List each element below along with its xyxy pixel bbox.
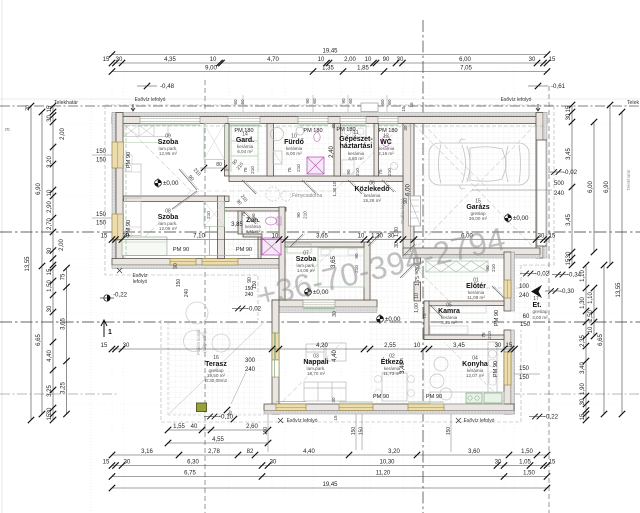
svg-text:15: 15 bbox=[549, 460, 556, 466]
svg-text:90: 90 bbox=[251, 213, 256, 219]
svg-text:-0,22: -0,22 bbox=[544, 414, 559, 421]
svg-text:36,00 m²: 36,00 m² bbox=[469, 216, 488, 221]
svg-text:500: 500 bbox=[554, 181, 565, 187]
svg-text:10: 10 bbox=[365, 57, 372, 63]
svg-text:PM 90: PM 90 bbox=[373, 394, 389, 400]
svg-text:90: 90 bbox=[346, 169, 351, 175]
property line Telekhatar top bbox=[0, 100, 640, 106]
svg-text:82: 82 bbox=[247, 449, 254, 455]
exterior wall left-block south bbox=[112, 259, 285, 269]
room label szoba09 bbox=[158, 134, 179, 157]
garage door east opening bbox=[536, 140, 547, 246]
window gard top bbox=[228, 117, 260, 124]
section line vertical right bbox=[548, 86, 550, 513]
exterior wall konyha east bbox=[504, 330, 515, 414]
wardrobe szoba08 bbox=[204, 202, 225, 227]
svg-text:90: 90 bbox=[485, 265, 490, 271]
svg-text:-0,22: -0,22 bbox=[113, 292, 128, 299]
svg-text:Esővíz lefolyó: Esővíz lefolyó bbox=[287, 418, 318, 424]
svg-text:4,35: 4,35 bbox=[164, 57, 176, 63]
elevation -0,10 terrace bbox=[204, 414, 234, 421]
svg-text:9,00: 9,00 bbox=[205, 66, 217, 72]
svg-text:11,08 m²: 11,08 m² bbox=[467, 295, 485, 300]
dimension right 6,90 bbox=[604, 102, 613, 268]
svg-text:90: 90 bbox=[173, 263, 179, 269]
svg-text:11,73 m²: 11,73 m² bbox=[383, 371, 401, 376]
svg-text:60: 60 bbox=[387, 99, 392, 105]
svg-text:30: 30 bbox=[123, 343, 130, 349]
room label garazs bbox=[466, 199, 489, 222]
svg-text:3,25: 3,25 bbox=[61, 382, 67, 394]
svg-text:240: 240 bbox=[245, 292, 254, 298]
interior wall furdo-gepeszet bbox=[334, 124, 341, 177]
svg-text:3,45: 3,45 bbox=[453, 343, 465, 349]
svg-text:1: 1 bbox=[108, 329, 112, 336]
entrance arrow bbox=[519, 284, 542, 299]
window furdo top bbox=[298, 117, 328, 124]
dimension top chain detail bbox=[103, 57, 556, 66]
dimension right 6,00 bbox=[588, 119, 597, 255]
room label furdo bbox=[284, 134, 304, 157]
terrace circles bbox=[184, 302, 231, 352]
interior wall szoba08 east bbox=[218, 124, 230, 259]
svg-text:1,55: 1,55 bbox=[173, 424, 185, 430]
elevation pm0 szoba07 bbox=[305, 287, 329, 297]
svg-text:4,55: 4,55 bbox=[212, 437, 224, 443]
svg-text:10: 10 bbox=[414, 293, 420, 299]
toilet wc2 bbox=[266, 217, 282, 225]
tile floor etkezo bbox=[370, 301, 414, 404]
svg-text:90: 90 bbox=[296, 212, 301, 218]
svg-text:12,07 m²: 12,07 m² bbox=[466, 373, 485, 378]
kamra door labels 75 210 bbox=[481, 331, 492, 339]
svg-text:75: 75 bbox=[241, 211, 246, 217]
room label wc bbox=[378, 134, 395, 157]
svg-text:Szoba: Szoba bbox=[158, 139, 179, 146]
svg-text:30: 30 bbox=[47, 305, 53, 312]
garage west corner dims 15 30 bbox=[401, 106, 408, 131]
svg-text:Nappali: Nappali bbox=[303, 359, 328, 366]
svg-text:4,40: 4,40 bbox=[332, 350, 338, 362]
elevation -0,22 left bbox=[100, 292, 128, 302]
dimension terrace 1,55 40 2,60 bbox=[165, 424, 271, 433]
svg-text:60: 60 bbox=[523, 314, 530, 320]
toilet wc room bbox=[382, 136, 398, 170]
tile floor garage bbox=[414, 124, 536, 248]
svg-text:15: 15 bbox=[101, 234, 108, 240]
tile floor eloter kamra konyha bbox=[414, 258, 504, 404]
interior wall gepeszet-wc bbox=[374, 124, 379, 177]
svg-text:150: 150 bbox=[359, 427, 365, 436]
elevation -0,48 top left bbox=[137, 83, 175, 90]
exterior wall eloter east bbox=[504, 252, 515, 311]
svg-text:WC: WC bbox=[380, 139, 392, 146]
exterior wall top bbox=[112, 113, 547, 124]
tile floor terrace bbox=[168, 322, 264, 415]
svg-text:4,70: 4,70 bbox=[267, 57, 279, 63]
svg-text:15: 15 bbox=[549, 57, 556, 63]
padlas lejaro attic ladder bbox=[400, 196, 421, 226]
svg-text:90: 90 bbox=[305, 98, 310, 104]
svg-text:6,00 m²: 6,00 m² bbox=[286, 151, 302, 156]
room label szoba07 bbox=[296, 251, 317, 274]
gard shelves bbox=[231, 126, 262, 172]
svg-text:10: 10 bbox=[318, 57, 325, 63]
bathtub furdo bbox=[271, 128, 284, 165]
window nappali south 1 bbox=[276, 404, 306, 411]
top edge 60 labels bbox=[233, 95, 414, 112]
kitchen counter south bbox=[430, 392, 504, 404]
rainwater label top left bbox=[131, 97, 166, 111]
window szoba09 top bbox=[140, 117, 200, 124]
svg-text:Telek: Telek bbox=[627, 100, 640, 106]
dimension top line 19,45 bbox=[109, 49, 550, 58]
svg-text:210: 210 bbox=[250, 166, 255, 174]
svg-text:12,96 m²: 12,96 m² bbox=[159, 151, 178, 156]
svg-text:PM 90: PM 90 bbox=[126, 152, 132, 168]
svg-text:Födém kontúr: Födém kontúr bbox=[196, 328, 201, 354]
elevation -0,02 entrance bbox=[520, 271, 550, 278]
svg-text:60: 60 bbox=[233, 99, 238, 105]
svg-text:30: 30 bbox=[566, 251, 572, 258]
svg-text:210: 210 bbox=[387, 168, 392, 176]
svg-text:75: 75 bbox=[422, 313, 427, 319]
rainwater label bottom right bbox=[456, 418, 495, 424]
svg-text:10: 10 bbox=[47, 189, 53, 196]
dim drops 150 bottom wall bbox=[263, 414, 452, 452]
svg-text:Szoba: Szoba bbox=[158, 214, 179, 221]
svg-text:B:30,09m2: B:30,09m2 bbox=[205, 378, 228, 383]
car in garage bbox=[429, 139, 529, 189]
svg-text:60: 60 bbox=[348, 98, 353, 104]
svg-text:3,45: 3,45 bbox=[566, 148, 572, 160]
svg-text:1,10: 1,10 bbox=[588, 292, 594, 304]
svg-text:4,40: 4,40 bbox=[47, 350, 53, 362]
elevation -0,34 entrance bbox=[552, 272, 582, 279]
terrace diagonal bbox=[170, 324, 262, 413]
svg-text:Terasz: Terasz bbox=[205, 361, 227, 368]
green line szoba08 east bbox=[209, 226, 211, 255]
elevation pm0 garage bbox=[505, 213, 529, 223]
svg-text:3,65: 3,65 bbox=[316, 234, 328, 240]
window gepeszet top bbox=[340, 117, 366, 124]
svg-text:6,65: 6,65 bbox=[36, 334, 42, 346]
eloter closet bbox=[426, 261, 488, 272]
svg-text:13,55: 13,55 bbox=[25, 256, 31, 272]
shower zuh bbox=[262, 238, 281, 255]
svg-text:300: 300 bbox=[245, 358, 256, 364]
svg-text:PM 90: PM 90 bbox=[126, 220, 132, 236]
svg-text:1,85: 1,85 bbox=[357, 66, 369, 72]
PM 90 labels szoba08 bottom bbox=[173, 247, 252, 253]
interior wall gard-furdo bbox=[267, 124, 274, 177]
svg-text:Gépészet-: Gépészet- bbox=[339, 136, 373, 143]
tile floor zuh block bbox=[225, 211, 286, 259]
interior wall szoba07 east bbox=[364, 242, 370, 300]
svg-text:150: 150 bbox=[96, 149, 107, 155]
wardrobe szoba07 bbox=[287, 244, 311, 253]
svg-text:Esővíz lefolyó: Esővíz lefolyó bbox=[464, 418, 495, 424]
left area small labels bbox=[5, 105, 31, 133]
svg-text:30: 30 bbox=[397, 57, 404, 63]
svg-text:-0,02: -0,02 bbox=[535, 271, 550, 278]
washer dryer gepeszet bbox=[342, 126, 366, 174]
svg-text:80: 80 bbox=[216, 162, 222, 168]
window labels 150 konyha bbox=[514, 366, 540, 381]
svg-text:90: 90 bbox=[341, 98, 346, 104]
svg-text:3,40: 3,40 bbox=[400, 362, 406, 374]
bed szoba07 bbox=[318, 248, 364, 287]
svg-text:lefolyó: lefolyó bbox=[133, 279, 148, 285]
svg-text:150: 150 bbox=[176, 279, 182, 288]
room label gepeszet bbox=[339, 130, 373, 161]
dimension right chain garage bbox=[566, 102, 575, 268]
desk szoba08 bbox=[122, 237, 167, 256]
svg-text:15: 15 bbox=[409, 102, 414, 108]
dimension right 6,65 bbox=[598, 262, 607, 417]
svg-text:19,45: 19,45 bbox=[322, 482, 338, 488]
window labels 150 150 lower bbox=[92, 212, 112, 227]
svg-text:Konyha: Konyha bbox=[462, 361, 488, 368]
svg-text:1,50: 1,50 bbox=[523, 471, 535, 477]
svg-text:Garázs: Garázs bbox=[466, 204, 489, 211]
svg-text:2,00: 2,00 bbox=[60, 128, 66, 140]
svg-text:1,10: 1,10 bbox=[580, 270, 586, 282]
room label nappali bbox=[303, 354, 328, 377]
svg-text:30: 30 bbox=[566, 113, 572, 120]
svg-text:210: 210 bbox=[206, 211, 211, 219]
svg-text:6,90: 6,90 bbox=[604, 181, 610, 193]
section line vertical left bbox=[204, 80, 206, 513]
svg-text:6,04 m²: 6,04 m² bbox=[237, 149, 253, 154]
chimney above gepeszet bbox=[361, 103, 378, 112]
dimension left 13,55 bbox=[25, 103, 34, 423]
svg-text:3,20: 3,20 bbox=[388, 449, 400, 455]
svg-text:30: 30 bbox=[270, 460, 277, 466]
svg-text:15: 15 bbox=[101, 343, 108, 349]
svg-text:4,41 m²: 4,41 m² bbox=[246, 229, 261, 234]
svg-text:Gard.: Gard. bbox=[236, 137, 254, 144]
svg-text:30: 30 bbox=[495, 460, 502, 466]
svg-text:7,10: 7,10 bbox=[193, 234, 205, 240]
kitchen counter east bbox=[488, 342, 497, 402]
svg-text:-0,02: -0,02 bbox=[563, 169, 578, 176]
svg-text:6,30: 6,30 bbox=[187, 460, 199, 466]
svg-text:210: 210 bbox=[487, 331, 492, 339]
svg-text:6,90: 6,90 bbox=[36, 183, 42, 195]
PM 180 labels top windows bbox=[234, 127, 397, 134]
svg-text:15: 15 bbox=[566, 258, 572, 265]
rainwater label top right bbox=[501, 97, 540, 111]
svg-text:m.: m. bbox=[5, 127, 11, 133]
svg-text:100: 100 bbox=[519, 284, 530, 290]
svg-text:10: 10 bbox=[332, 181, 337, 187]
svg-text:2,00: 2,00 bbox=[344, 57, 356, 63]
svg-text:6,00: 6,00 bbox=[588, 181, 594, 193]
dining table etkezo bbox=[375, 373, 415, 401]
svg-text:75: 75 bbox=[61, 273, 67, 280]
terrace door leader line bbox=[231, 372, 246, 404]
interior wall under top rooms bbox=[229, 176, 403, 182]
room label kozlekedo bbox=[354, 181, 389, 204]
interior wall szoba07 west bbox=[279, 207, 285, 300]
dimension bottom 19,45 bbox=[109, 482, 550, 491]
svg-text:Fürdő: Fürdő bbox=[284, 139, 304, 146]
section line horizontal B bbox=[0, 321, 640, 323]
elevation pm0 etkezo bbox=[377, 314, 401, 324]
svg-text:±0,00: ±0,00 bbox=[513, 215, 529, 222]
elevation -0,22 bottom right bbox=[529, 414, 559, 421]
nappali bottom small labels bbox=[331, 397, 338, 421]
svg-text:3,45: 3,45 bbox=[566, 214, 572, 226]
door eloter east bbox=[504, 280, 511, 298]
svg-text:30: 30 bbox=[47, 407, 53, 414]
svg-text:(szigetelés): (szigetelés) bbox=[202, 331, 207, 353]
svg-text:15: 15 bbox=[47, 413, 53, 420]
svg-text:7,05: 7,05 bbox=[460, 66, 472, 72]
window etkezo south bbox=[408, 404, 444, 411]
svg-text:1,00: 1,00 bbox=[414, 303, 420, 313]
svg-text:3,00 m²: 3,00 m² bbox=[532, 315, 548, 320]
roof projection diagonals bbox=[124, 124, 536, 412]
svg-text:Szoba: Szoba bbox=[296, 256, 317, 263]
svg-text:240: 240 bbox=[519, 293, 530, 299]
svg-text:6,65: 6,65 bbox=[598, 334, 604, 346]
terrace slab dashed edge bbox=[168, 322, 264, 415]
interior wall zuh block bbox=[225, 208, 287, 259]
svg-text:1,50: 1,50 bbox=[521, 449, 533, 455]
svg-text:Telekhatár: Telekhatár bbox=[54, 100, 78, 106]
svg-text:PM 180: PM 180 bbox=[234, 128, 253, 134]
svg-text:19,45: 19,45 bbox=[322, 49, 338, 55]
svg-text:30: 30 bbox=[116, 57, 123, 63]
garage interior vertical dim 6,00 bbox=[406, 124, 412, 252]
svg-text:2,78: 2,78 bbox=[208, 449, 220, 455]
room label et bbox=[532, 296, 548, 320]
interior wall szoba09-gard bbox=[225, 124, 230, 177]
rainwater label left block bottom bbox=[117, 268, 148, 285]
fenycsatorna circles bbox=[266, 187, 323, 201]
svg-text:30: 30 bbox=[538, 234, 545, 240]
svg-text:Kamra: Kamra bbox=[438, 308, 460, 315]
green gutter lines inside walls bbox=[126, 126, 545, 255]
kamra area dim labels bbox=[414, 265, 421, 313]
door label 300 240 terrace bbox=[245, 358, 256, 373]
garage entry side dims bbox=[394, 198, 409, 248]
svg-text:PM 180: PM 180 bbox=[303, 128, 322, 134]
svg-text:240: 240 bbox=[245, 367, 256, 373]
roof eaves dashed outline bbox=[105, 105, 554, 288]
dimension left inner 2,00s bbox=[59, 128, 66, 251]
svg-text:15: 15 bbox=[401, 106, 406, 112]
svg-text:3,85: 3,85 bbox=[231, 222, 243, 228]
svg-text:10: 10 bbox=[210, 57, 217, 63]
dimension left sub chain x66 bbox=[61, 265, 70, 417]
svg-text:2,60: 2,60 bbox=[246, 424, 258, 430]
elevation -0,02 terrace bbox=[232, 306, 262, 313]
dim 80 wardrobe bbox=[200, 162, 228, 171]
svg-text:2,55: 2,55 bbox=[384, 343, 396, 349]
room label terasz bbox=[205, 355, 228, 383]
interior wall eloter west bbox=[414, 258, 421, 301]
svg-text:15: 15 bbox=[580, 413, 586, 420]
svg-text:11,20: 11,20 bbox=[376, 471, 391, 477]
svg-text:PM 90: PM 90 bbox=[173, 247, 189, 253]
svg-text:2,16 m²: 2,16 m² bbox=[378, 151, 394, 156]
section line vertical 2 bbox=[422, 20, 424, 513]
svg-text:2,70: 2,70 bbox=[47, 218, 53, 230]
szoba07 side labels 150 240 bbox=[173, 263, 190, 297]
svg-text:Előtér: Előtér bbox=[466, 283, 486, 290]
svg-text:15: 15 bbox=[103, 460, 110, 466]
svg-text:10: 10 bbox=[588, 326, 594, 333]
PM 90 label konyha east rotated bbox=[493, 310, 500, 377]
dimension left chain detail bbox=[47, 103, 56, 423]
room label szoba08 bbox=[158, 209, 179, 232]
svg-text:150: 150 bbox=[263, 427, 269, 436]
svg-text:30: 30 bbox=[332, 311, 338, 317]
svg-text:15: 15 bbox=[549, 234, 556, 240]
room label gard bbox=[236, 132, 254, 155]
window nappali south 2 bbox=[339, 404, 373, 411]
dimension right lower chain bbox=[580, 262, 589, 423]
svg-text:150: 150 bbox=[96, 212, 107, 218]
svg-text:Közlekedő: Közlekedő bbox=[354, 186, 389, 193]
svg-text:10: 10 bbox=[414, 343, 421, 349]
exterior wall south nappali-konyha bbox=[264, 404, 514, 414]
terrace door dim 40 bbox=[224, 407, 237, 422]
dimension top line 9,00 7,05 bbox=[109, 66, 550, 75]
room label etkezo bbox=[381, 354, 404, 377]
svg-text:1,90: 1,90 bbox=[580, 383, 586, 395]
rainwater label bottom left bbox=[278, 418, 318, 424]
tile floor top row rooms bbox=[229, 124, 403, 176]
svg-text:2,00: 2,00 bbox=[59, 239, 65, 251]
svg-text:1,30: 1,30 bbox=[580, 297, 586, 309]
window szoba08 left bbox=[112, 214, 124, 240]
svg-text:4,80 m²: 4,80 m² bbox=[348, 156, 364, 161]
svg-text:15: 15 bbox=[47, 105, 53, 112]
PM 90 labels left wall windows bbox=[126, 152, 132, 236]
svg-text:30: 30 bbox=[403, 125, 408, 131]
garage door label 500 240 bbox=[472, 181, 565, 197]
svg-text:210: 210 bbox=[355, 168, 360, 176]
door size labels small rotated bbox=[231, 123, 496, 319]
svg-text:150: 150 bbox=[446, 427, 452, 436]
svg-text:15: 15 bbox=[47, 268, 53, 275]
svg-text:6,75: 6,75 bbox=[184, 471, 196, 477]
svg-text:30: 30 bbox=[124, 460, 131, 466]
svg-text:15: 15 bbox=[333, 415, 338, 421]
terrace drain square bbox=[197, 403, 207, 412]
svg-text:1,75: 1,75 bbox=[415, 276, 421, 286]
dimension bottom chain 1 bbox=[109, 449, 550, 458]
svg-text:2,35: 2,35 bbox=[580, 335, 586, 347]
svg-text:±0,00: ±0,00 bbox=[385, 316, 401, 323]
svg-text:210: 210 bbox=[296, 164, 301, 172]
svg-text:10,30: 10,30 bbox=[379, 460, 395, 466]
svg-text:240: 240 bbox=[184, 289, 190, 298]
svg-text:30: 30 bbox=[580, 398, 586, 405]
kitchen circles bbox=[430, 357, 452, 400]
exterior wall garage south bbox=[403, 248, 540, 258]
door nappali west terrace bbox=[272, 332, 279, 378]
room label konyha bbox=[462, 356, 488, 379]
exterior wall garage east bbox=[536, 113, 547, 259]
svg-text:10: 10 bbox=[272, 234, 279, 240]
svg-text:3,20: 3,20 bbox=[47, 156, 53, 168]
svg-text:Et.: Et. bbox=[533, 302, 542, 309]
